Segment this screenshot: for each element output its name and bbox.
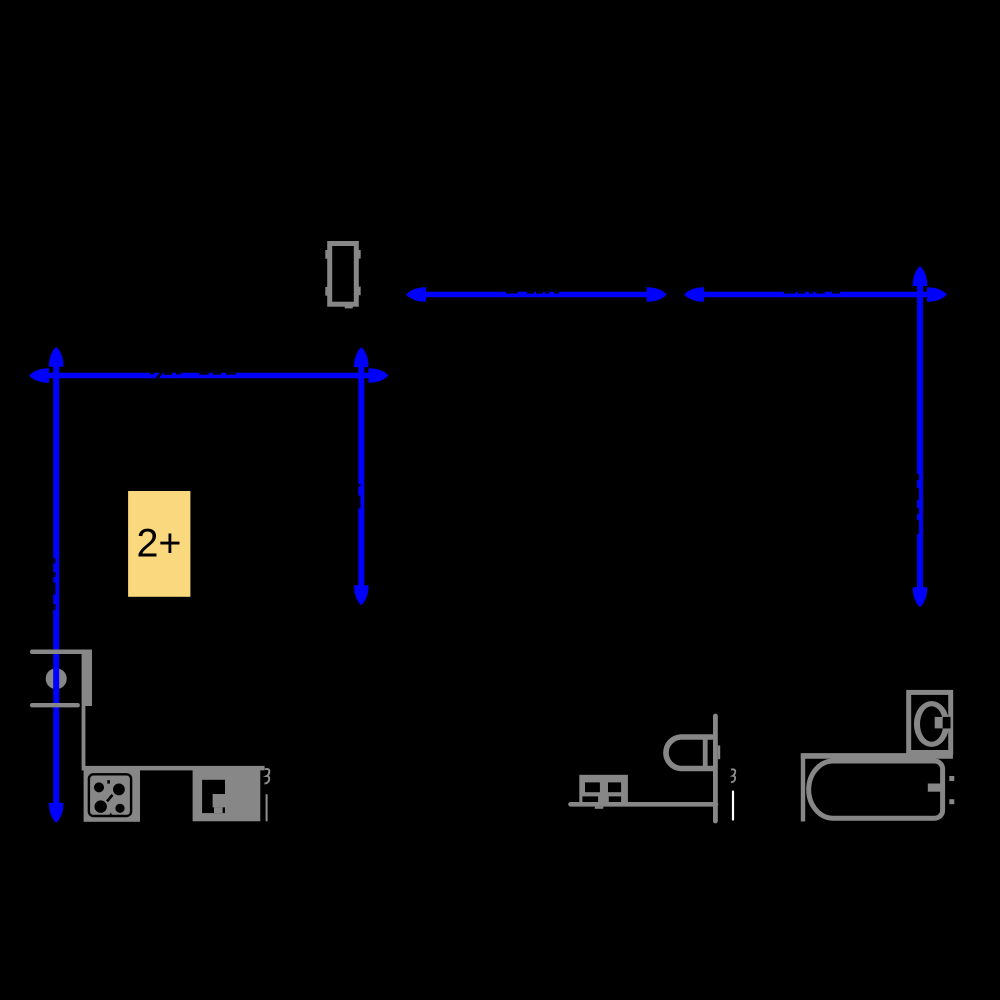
bathtub faucet — [928, 776, 955, 804]
washing machine — [909, 692, 951, 752]
dimension arrow F vertical right — [913, 266, 928, 607]
yellow room label 2+ — [128, 491, 190, 597]
toilet — [579, 775, 628, 809]
kitchen sink cabinet outline — [30, 650, 92, 767]
notches on arrow E — [358, 484, 360, 487]
kitchen door handle squiggle — [265, 769, 270, 784]
bathroom wall line under toilet — [571, 802, 717, 807]
dimension arrow A horizontal top-left-of-pair — [406, 287, 667, 302]
dimension arrow E vertical mid-left — [354, 347, 369, 605]
basin tap nub — [718, 745, 720, 759]
dimension arrow B horizontal top-right — [684, 287, 947, 302]
notches on arrow C — [156, 371, 165, 379]
notches on arrow B — [784, 292, 796, 294]
notches on arrow A — [506, 292, 518, 294]
kitchen sink circle — [46, 668, 67, 689]
bath area wall lines — [801, 753, 953, 759]
notches on arrow F — [917, 474, 919, 480]
kitchen counter top edge — [82, 766, 265, 771]
dimension arrow D vertical far-left — [49, 347, 64, 823]
bathroom vertical wall line — [713, 716, 718, 821]
bathtub — [809, 761, 943, 818]
radiator (top gray rect with nubs) — [325, 244, 360, 309]
dimension arrow C horizontal left — [29, 368, 389, 383]
notches on arrow D — [53, 558, 55, 563]
bathroom white door leaf line — [732, 792, 734, 820]
bathroom door handle squiggle — [731, 769, 735, 782]
hidden dimension text notches (black over blue) — [53, 292, 919, 610]
stove block with hob — [84, 769, 140, 822]
washbasin — [666, 737, 713, 769]
kitchen door leaf line — [266, 795, 268, 821]
kitchen sink unit block — [193, 769, 261, 821]
svg-text:2+: 2+ — [136, 522, 181, 566]
